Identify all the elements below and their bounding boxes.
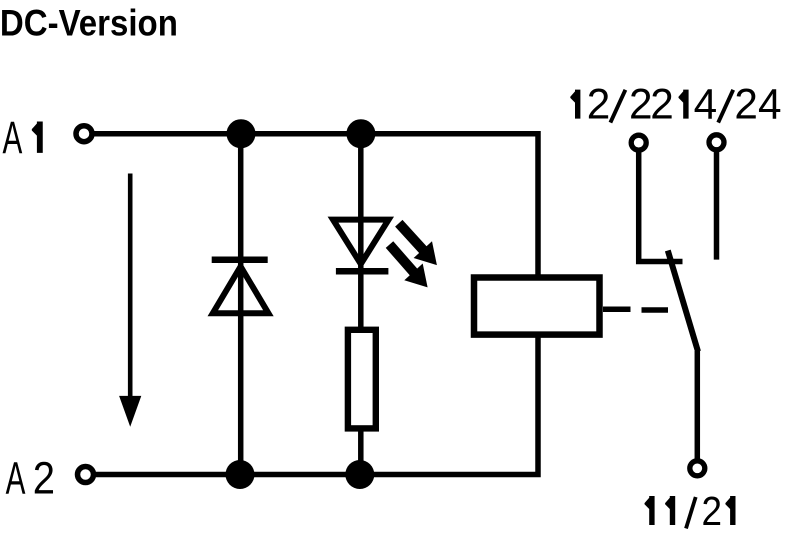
wire top rail A1 to coil drop: [94, 134, 538, 278]
label A1: [3, 113, 43, 164]
label 12/22: [570, 81, 674, 128]
terminal A1: [76, 126, 92, 142]
node junction bottom right: [345, 460, 374, 489]
terminal 14/24: [709, 135, 724, 150]
diode D1 (suppressor): [212, 260, 269, 314]
title DC-Version: [0, 2, 178, 43]
terminal A2: [78, 467, 94, 483]
wire bottom rail A2 to coil drop: [95, 336, 538, 475]
dashed actuator link: [603, 307, 668, 313]
svg-text:A: A: [3, 113, 23, 164]
node junction top left: [227, 119, 256, 148]
switch lever: [668, 251, 698, 352]
node junction bottom left: [226, 460, 255, 489]
polarity arrow: [119, 174, 141, 427]
resistor R1: [348, 330, 376, 429]
wire LED-resistor branch: [358, 134, 364, 475]
wire contact 14/24 drop: [714, 152, 720, 260]
LED: [333, 220, 389, 272]
svg-text:2: 2: [629, 81, 653, 128]
label 11/21: [645, 489, 736, 534]
svg-text:DC-Version: DC-Version: [0, 2, 178, 43]
svg-text:2: 2: [587, 81, 611, 128]
terminal 12/22: [631, 135, 646, 150]
LED emission arrow 2: [390, 245, 428, 288]
node junction top right: [346, 119, 375, 148]
wire diode branch: [238, 134, 244, 475]
label 14/24: [679, 81, 782, 128]
LED emission arrow 1: [399, 223, 437, 265]
svg-text:2: 2: [734, 81, 758, 128]
svg-text:4: 4: [694, 81, 718, 128]
wire contact 12/22 drop: [639, 152, 683, 262]
svg-text:2: 2: [650, 81, 674, 128]
relay coil K1: [474, 278, 600, 335]
svg-text:A: A: [6, 454, 26, 505]
label A2: [6, 454, 55, 505]
svg-text:2: 2: [33, 454, 55, 505]
svg-text:4: 4: [758, 81, 782, 128]
wire common 11/21: [695, 351, 701, 459]
terminal 11/21: [690, 461, 705, 476]
svg-text:2: 2: [702, 489, 723, 534]
